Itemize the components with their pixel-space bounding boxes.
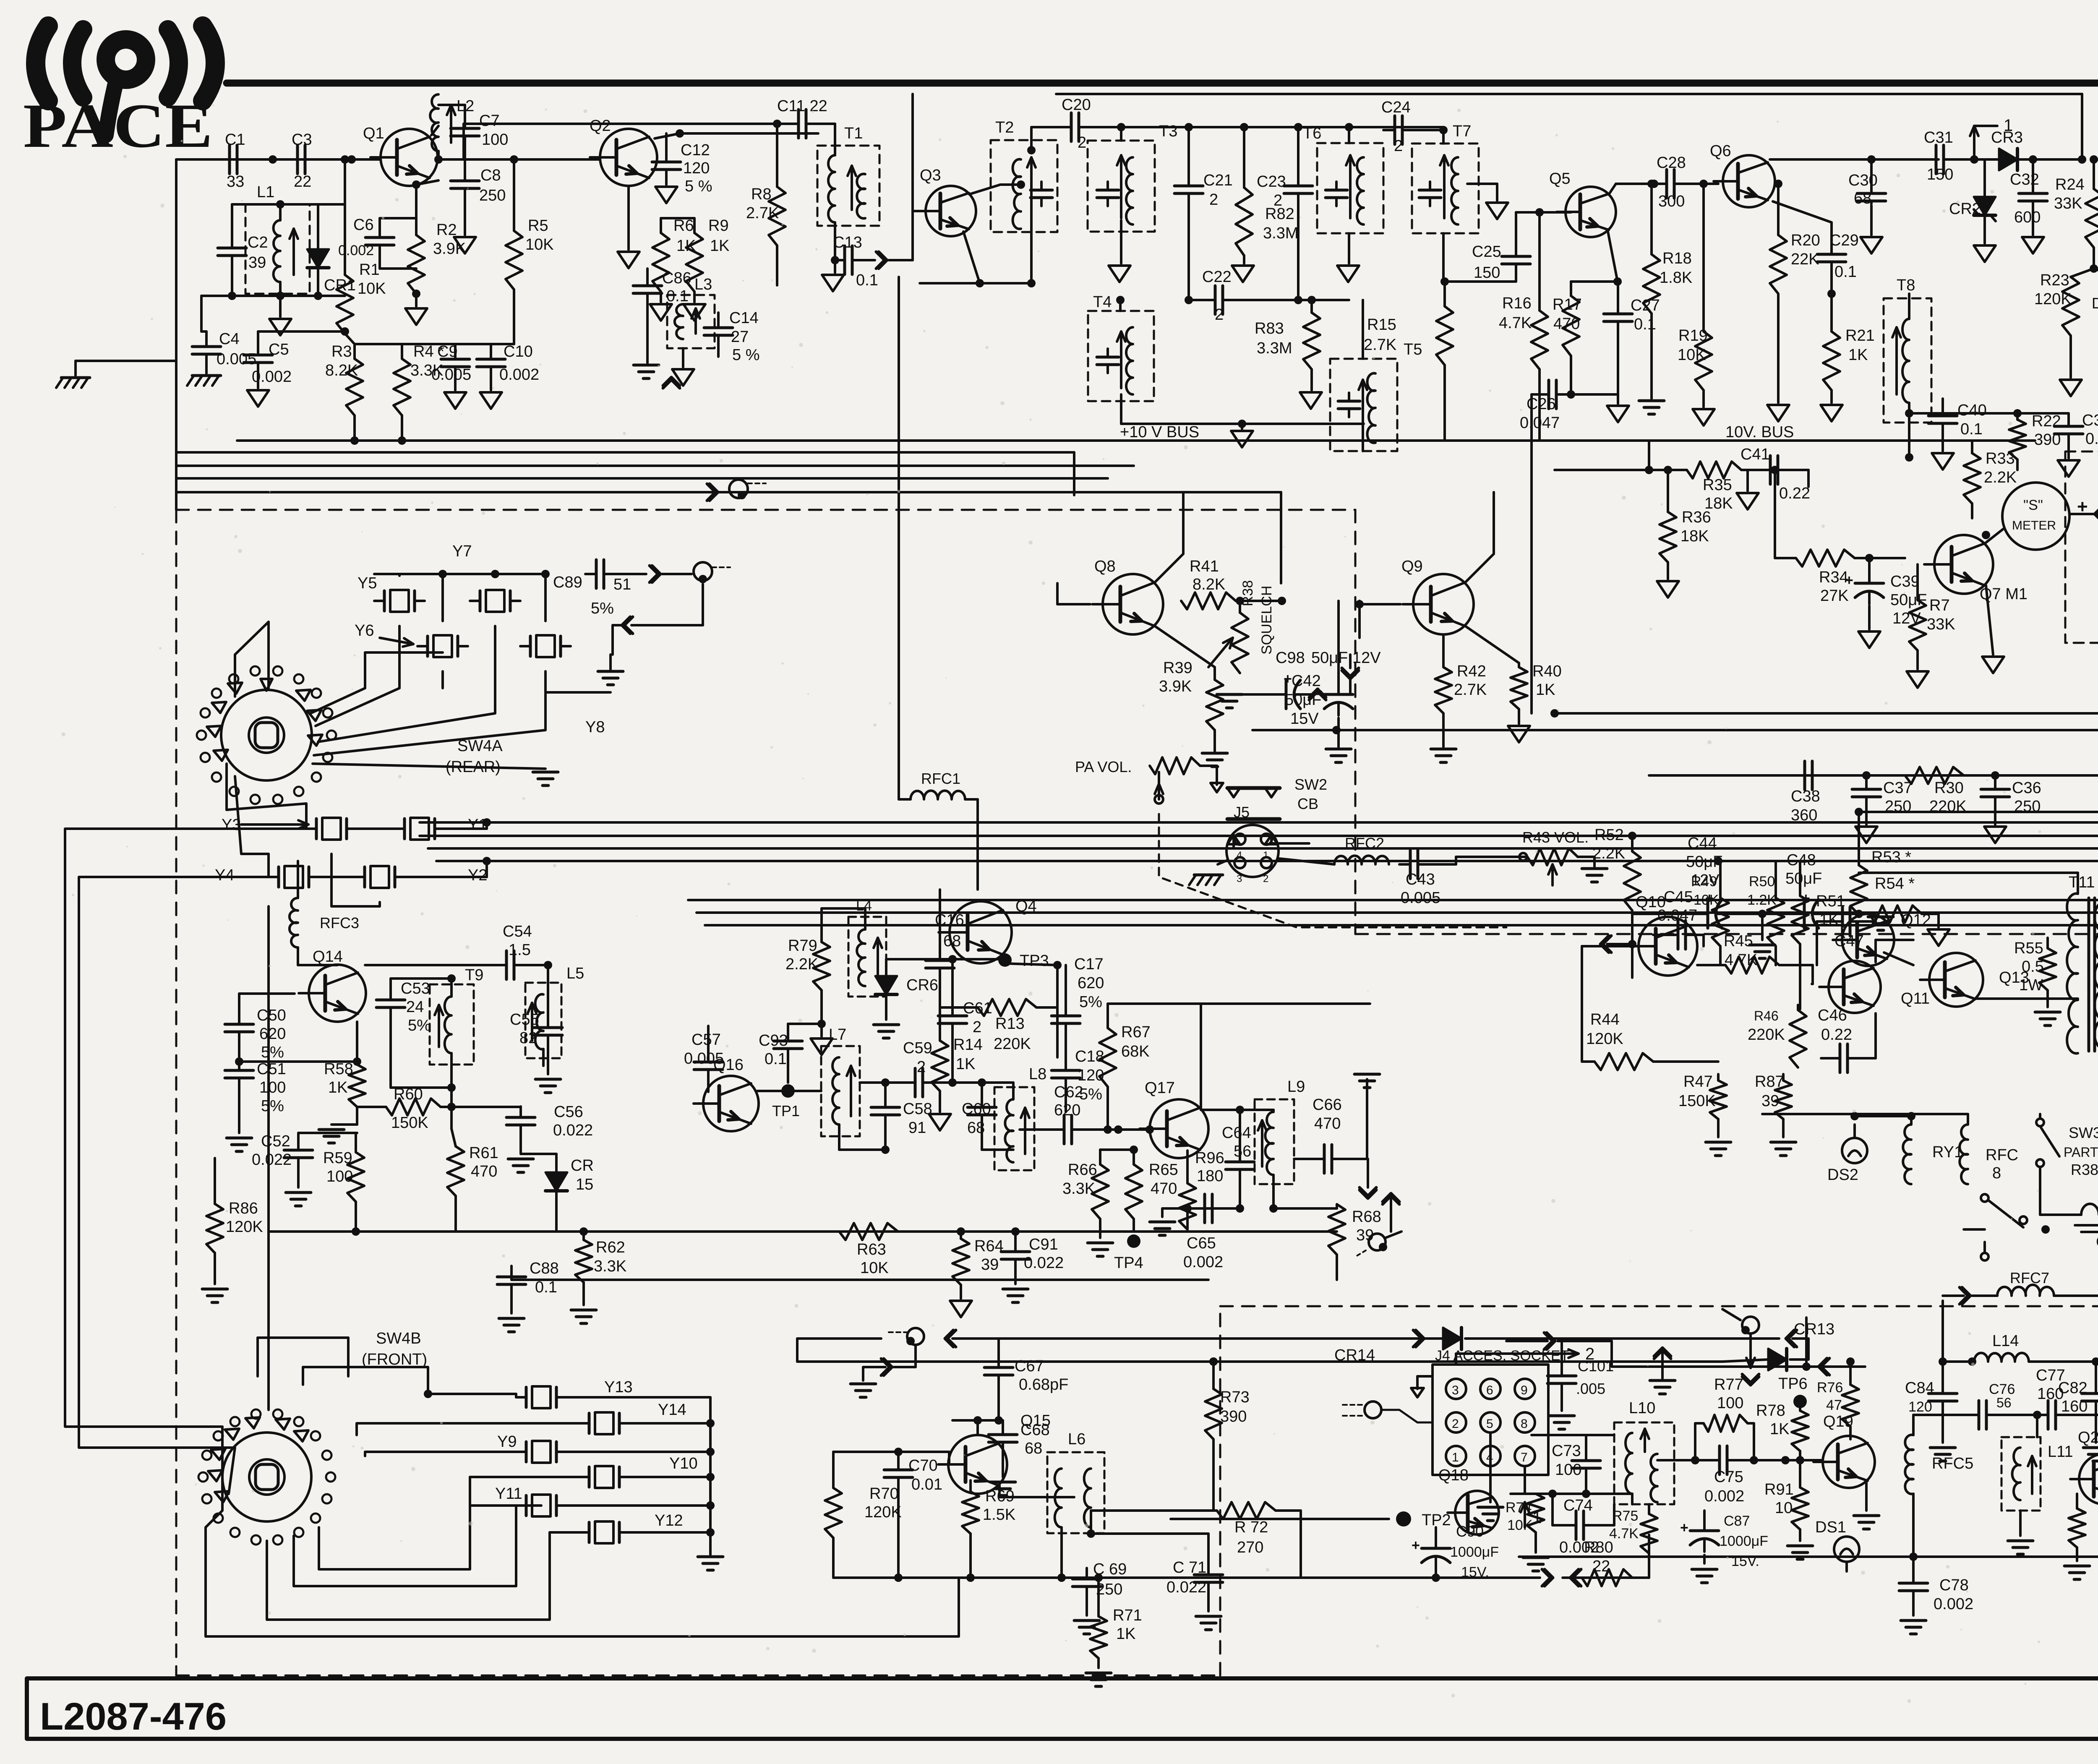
svg-text:1K: 1K [328,1079,347,1096]
svg-text:R74: R74 [1506,1500,1532,1516]
capacitor C1 [228,145,231,174]
SW4B wiring [357,1423,457,1435]
ground C51 [227,1137,252,1140]
svg-text:3: 3 [1237,873,1242,885]
svg-text:3: 3 [1452,1383,1459,1397]
J4 arrow 2 [1553,1352,1579,1355]
inductor RFC2 [1334,856,1389,864]
transistor Q5 [1566,187,1616,237]
ground R58 audio [319,1128,344,1131]
svg-text:T7: T7 [1453,123,1471,140]
svg-text:C98: C98 [1276,649,1305,667]
svg-text:56: 56 [1234,1143,1251,1160]
svg-text:27K: 27K [1820,587,1849,605]
svg-text:C5: C5 [269,341,289,358]
switch SW2 [1227,786,1280,790]
svg-text:DISTANT: DISTANT [2092,295,2098,312]
crystal Y1 [403,819,406,839]
svg-text:T3: T3 [1159,123,1177,140]
crystal Y4 [277,867,280,887]
svg-text:100: 100 [1717,1394,1743,1412]
svg-text:1.5K: 1.5K [983,1506,1015,1524]
svg-text:Y13: Y13 [604,1378,633,1396]
resistor R77 [1704,1415,1748,1432]
resistor R3 [346,359,363,415]
svg-text:2: 2 [917,1058,926,1076]
svg-text:R63: R63 [857,1241,886,1258]
svg-text:C21: C21 [1203,172,1233,189]
capacitor C47 [1841,907,1844,936]
svg-text:C50: C50 [257,1007,286,1024]
svg-text:8: 8 [1521,1417,1528,1431]
svg-text:C70: C70 [908,1457,938,1474]
svg-text:L5: L5 [566,965,584,982]
resistor R4 [394,359,410,415]
svg-text:Y2: Y2 [468,866,487,884]
svg-text:0.1: 0.1 [2085,430,2098,448]
svg-text:T5: T5 [1404,341,1422,358]
svg-text:C45: C45 [1664,888,1693,906]
ground T6 [1337,266,1359,282]
svg-text:C24: C24 [1381,99,1411,116]
resistor R75 [1641,1514,1657,1553]
svg-text:7: 7 [1521,1451,1528,1464]
capacitor C82 [2082,1392,2098,1395]
capacitor C93 [774,1040,802,1043]
svg-text:C4: C4 [219,330,240,348]
connector circle mid [1742,1317,1759,1333]
svg-text:0.1: 0.1 [666,287,689,305]
svg-text:RFC3: RFC3 [320,914,359,932]
svg-text:250: 250 [1885,798,1911,815]
svg-text:PA VOL.: PA VOL. [1075,758,1132,775]
svg-text:220K: 220K [994,1035,1031,1053]
crystal Y5 [383,591,386,611]
svg-text:0.047: 0.047 [1520,414,1560,432]
svg-text:120: 120 [1908,1399,1932,1415]
svg-text:R65: R65 [1149,1161,1178,1179]
capacitor C10 [477,358,505,361]
svg-text:R78: R78 [1756,1402,1785,1420]
chassis ground J5 [1194,874,1223,877]
resistor R59 [347,1152,364,1202]
vertical to bus x2175 [911,94,914,260]
capacitor C54 [505,951,508,979]
transistor Q2 [600,129,657,186]
transformer T7 [1451,157,1458,224]
wire left vertical x640 [267,906,270,1410]
svg-text:C82: C82 [2058,1379,2088,1397]
svg-text:100: 100 [1555,1461,1581,1479]
wire Q11 collector [1874,940,1877,962]
capacitor C30 [1857,192,1886,195]
svg-text:6: 6 [1486,1383,1493,1397]
svg-text:2.2K: 2.2K [1984,469,2017,486]
svg-text:R64: R64 [974,1237,1004,1255]
svg-text:39: 39 [1761,1092,1779,1110]
svg-text:R17: R17 [1553,296,1582,313]
svg-text:Y6: Y6 [355,622,374,639]
switch SW3 [2036,1119,2044,1126]
ground C44 [1761,914,1764,940]
capacitor C52 [284,1149,313,1152]
inductor L1 [274,220,280,282]
capacitor C43 [1409,850,1412,879]
rotary switch SW4B [222,1433,311,1521]
dashed box L9 [1255,1099,1294,1184]
capacitor C91 [1001,1250,1030,1253]
svg-text:0.022: 0.022 [252,1151,292,1169]
svg-text:C89: C89 [553,574,582,591]
svg-text:Y12: Y12 [655,1512,683,1529]
svg-text:R96: R96 [1195,1149,1224,1167]
svg-text:R59: R59 [323,1149,352,1167]
inductor RFC1 [911,791,965,799]
ground C65 [1161,1208,1164,1217]
svg-text:0.1: 0.1 [856,271,878,289]
chevron TX line [1544,1333,1555,1349]
svg-text:T9: T9 [465,966,483,984]
svg-text:150: 150 [1927,166,1953,183]
dashed wiper line [1159,814,1506,927]
resistor R79 [813,942,830,990]
capacitor C44 polarized [1707,900,1709,928]
relay RY1 [1903,1125,1911,1184]
svg-text:R9: R9 [708,217,729,235]
capacitor C61 [938,1015,967,1018]
svg-text:R2: R2 [436,221,457,239]
ground C27 [1617,394,1619,404]
capacitor C55 [534,1026,562,1029]
svg-text:Y3: Y3 [222,816,241,834]
svg-text:R70: R70 [869,1485,899,1503]
svg-text:R7: R7 [1929,597,1950,614]
J4 arrow 1 [1524,1502,1526,1527]
svg-text:CR1: CR1 [324,277,356,294]
chevron return [622,617,633,634]
svg-text:2.2K: 2.2K [1592,845,1625,862]
svg-text:R6: R6 [673,217,694,235]
inductor L8 [1005,1099,1013,1162]
ground C10 [480,392,502,409]
inductor L14 [1974,1353,2029,1362]
vertical x4630 for L14 input [1941,1301,1944,1362]
svg-text:L9: L9 [1287,1078,1305,1096]
svg-text:L6: L6 [1068,1430,1086,1448]
base wire Q5 [1516,211,1571,214]
node y380 L2 [434,155,443,164]
svg-text:0.005: 0.005 [431,366,471,384]
capacitor C18 [1052,1069,1080,1072]
svg-text:CR3: CR3 [1991,129,2023,146]
crystal bus joins [305,804,308,829]
resistor R15 [1436,306,1453,365]
wire Q15 base [948,1452,950,1464]
zener CR2 [1974,197,1996,215]
capacitor C16 [926,959,954,962]
svg-text:2: 2 [1394,137,1403,155]
svg-text:C40: C40 [1957,402,1987,419]
resistor R8 [769,187,785,245]
wire Q17 collector top [1200,1004,1202,1110]
svg-text:0.002: 0.002 [1559,1539,1599,1556]
ground C8 [454,237,476,253]
svg-text:620: 620 [1054,1101,1080,1119]
svg-text:R38: R38 [2071,1161,2098,1178]
svg-text:METER: METER [2012,519,2056,532]
svg-text:.005: .005 [1576,1380,1605,1397]
chevrons row 3760 [1542,1569,1553,1586]
resistor R60 [386,1099,441,1115]
svg-text:C17: C17 [1074,955,1104,973]
resistor R14 [932,1041,948,1091]
chevron R52 [1600,936,1611,952]
transistor Q6 [1723,155,1775,207]
test point TP3 [998,953,1012,967]
svg-text:R41: R41 [1190,558,1219,575]
svg-text:3.9K: 3.9K [433,240,466,258]
wire row y2935 [269,1230,1337,1233]
svg-text:PART OF: PART OF [2064,1145,2098,1160]
svg-text:TP6: TP6 [1778,1375,1808,1393]
svg-text:R77: R77 [1714,1376,1743,1393]
svg-text:2: 2 [1263,873,1268,885]
svg-text:DS1: DS1 [1815,1519,1846,1536]
resistor R5 [506,231,522,290]
resistor R82 [1236,188,1253,256]
capacitor C29 [1817,253,1846,256]
svg-text:R54 *: R54 * [1875,875,1915,892]
svg-text:2: 2 [1273,192,1282,209]
svg-text:L1: L1 [257,183,274,201]
svg-text:TP3: TP3 [1020,952,1049,970]
J4 side arrow [1411,1388,1424,1397]
svg-text:50μF: 50μF [1785,870,1822,887]
resistor R9 [686,233,703,292]
capacitor C53 [376,999,405,1002]
svg-text:620: 620 [259,1025,286,1043]
svg-text:C59: C59 [903,1039,932,1057]
svg-text:68: 68 [1025,1440,1042,1457]
wire to CR13 [1786,1330,1797,1347]
transistor Q10 [1639,917,1697,976]
capacitor C68 [989,1433,1017,1436]
svg-text:8.2K: 8.2K [1193,576,1225,593]
svg-text:T4: T4 [1093,293,1112,311]
wire row y3050 [511,1279,1208,1281]
svg-text:CR13: CR13 [1794,1320,1834,1338]
wire rows y3190 y3245 [990,1337,1443,1340]
svg-text:C10: C10 [504,343,533,360]
dashed box T8 [1884,298,1931,423]
svg-text:5%: 5% [1079,993,1102,1011]
svg-text:R67: R67 [1121,1023,1151,1041]
capacitor C5 [244,354,272,357]
svg-text:T1: T1 [844,125,863,142]
wire bus rows y2145-2205 [688,899,2098,901]
svg-text:C56: C56 [554,1103,583,1121]
capacitor C51 [225,1069,253,1072]
svg-text:360: 360 [1791,806,1817,824]
capacitor C4 [192,345,221,348]
ground T4 T5 rail [1238,420,1246,428]
inductor RFC8 [1960,1125,1968,1184]
capacitor C98 polarized [1285,680,1288,709]
svg-text:C58: C58 [903,1100,932,1118]
ground R79 [820,1024,823,1036]
dashed box T1 [817,146,879,226]
transistor Q16 [703,1076,759,1131]
svg-text:R8: R8 [751,185,772,203]
svg-text:C87: C87 [1724,1513,1750,1529]
svg-text:(FRONT): (FRONT) [362,1351,427,1368]
capacitor C71 [1194,1574,1223,1576]
ground R19 audio [1639,399,1664,402]
svg-text:C52: C52 [261,1133,290,1150]
transistor Q18 [1455,1491,1499,1534]
inductor L9 [1265,1112,1273,1175]
svg-text:91: 91 [908,1119,926,1137]
svg-text:100: 100 [259,1079,286,1096]
svg-text:C11 22: C11 22 [777,97,827,115]
capacitor C60 [968,1106,996,1109]
svg-text:Q8: Q8 [1094,558,1116,575]
transistor Q4 [950,901,1012,963]
svg-text:R18: R18 [1662,250,1692,267]
capacitor C67 [984,1366,1013,1369]
capacitor C26 [1547,380,1550,409]
resistor R61 [447,1146,464,1196]
svg-text:15V.: 15V. [1461,1564,1489,1580]
svg-text:0.005: 0.005 [1401,889,1440,907]
svg-text:0.002: 0.002 [499,366,539,384]
svg-text:0.1: 0.1 [1834,263,1857,281]
inductor L4 [857,929,865,986]
svg-text:C93: C93 [759,1032,788,1049]
capacitor C59 [914,1068,917,1097]
svg-text:R91: R91 [1764,1481,1794,1498]
resistor R46 [1790,1010,1806,1067]
svg-text:1K: 1K [956,1055,975,1073]
svg-text:R45: R45 [1724,932,1753,950]
svg-text:220K: 220K [1748,1026,1785,1044]
svg-text:C3: C3 [292,131,312,149]
svg-text:C8: C8 [480,167,501,184]
svg-text:Q4: Q4 [1015,898,1037,915]
svg-text:C65: C65 [1187,1234,1216,1252]
svg-text:0.022: 0.022 [1024,1254,1064,1272]
resistor R22 [2009,420,2026,459]
svg-text:0.68pF: 0.68pF [1019,1376,1068,1393]
svg-text:R53 *: R53 * [1871,848,1911,866]
svg-text:C62: C62 [1054,1083,1083,1101]
svg-text:RY1: RY1 [1932,1143,1963,1161]
wire Q3 emitter down [963,232,980,283]
resistor R51 [1792,896,1808,944]
wire Q5 collector [1609,184,1616,194]
transistor Q11 [1829,961,1881,1013]
resistor R55 [2039,948,2056,990]
capacitor C56 [506,1116,535,1119]
capacitor C70 [884,1469,913,1472]
resistor R53 [1850,865,1867,915]
svg-text:R24: R24 [2055,176,2085,193]
wire y3560 [1511,1493,1632,1495]
svg-text:3.3M: 3.3M [1263,224,1298,242]
resistor R35 [1687,462,1741,478]
svg-text:C60: C60 [962,1100,991,1118]
svg-text:R68: R68 [1352,1208,1381,1226]
svg-text:CR14: CR14 [1334,1346,1375,1364]
capacitor C6 [365,236,394,239]
capacitor C73 [1572,1459,1600,1462]
wire long row y224 [1056,93,2082,95]
svg-text:3.3K: 3.3K [594,1258,626,1275]
svg-text:C30: C30 [1848,172,1878,189]
svg-text:C64: C64 [1222,1124,1251,1142]
resistor R47 [1710,1080,1727,1119]
crystal Y8 [529,636,532,656]
svg-text:PACE: PACE [23,91,213,161]
svg-text:R5: R5 [528,217,548,235]
svg-text:R36: R36 [1682,509,1711,526]
resistor R66 [1092,1164,1109,1219]
crystal Y14 [588,1413,591,1433]
resistor R86 [206,1204,223,1253]
svg-text:0.002: 0.002 [1183,1253,1223,1271]
svg-text:22K: 22K [1791,251,1819,268]
svg-text:600: 600 [2014,209,2041,226]
dashed synthesizer boundary [176,509,1355,511]
svg-text:C54: C54 [503,923,532,940]
capacitor C62 [1063,1115,1066,1144]
resistor R36 [1660,512,1676,562]
capacitor C21 [1174,185,1203,188]
test point TP2 [1171,1518,1389,1520]
chassis ground left [61,376,90,379]
svg-text:5%: 5% [591,600,614,617]
svg-text:3.3M: 3.3M [1257,339,1292,357]
svg-text:0.22: 0.22 [1821,1026,1852,1044]
svg-text:Y4: Y4 [215,866,234,884]
ground SW4A area rcvr [276,292,284,300]
diode CR6 [875,976,897,994]
connector small circle [1369,1234,1386,1250]
svg-text:Q12: Q12 [1901,911,1931,929]
dashed box L3 [667,295,715,348]
transformer T4 [1126,327,1133,394]
capacitor C50 [225,1023,253,1026]
svg-text:150K: 150K [1678,1092,1716,1110]
crystal Y6 [426,636,429,656]
svg-text:24: 24 [406,998,424,1016]
svg-text:C23: C23 [1257,173,1286,190]
transistor Q9 [1413,574,1474,634]
capacitor C65 [1203,1194,1206,1223]
node Q17 base [1146,1125,1154,1134]
svg-text:Q19: Q19 [1823,1413,1853,1430]
J4 pins [1446,1379,1466,1399]
ground Q7 emitter [1986,585,1993,655]
transistor Q14 [309,965,366,1022]
resistor R62 [575,1240,592,1282]
svg-text:10K: 10K [357,280,386,297]
resistor R71 [1090,1616,1107,1658]
svg-text:Q18: Q18 [1438,1467,1469,1484]
svg-text:C67: C67 [1015,1357,1044,1375]
svg-text:SW2: SW2 [1294,776,1327,793]
dashed box L10 [1614,1422,1674,1504]
